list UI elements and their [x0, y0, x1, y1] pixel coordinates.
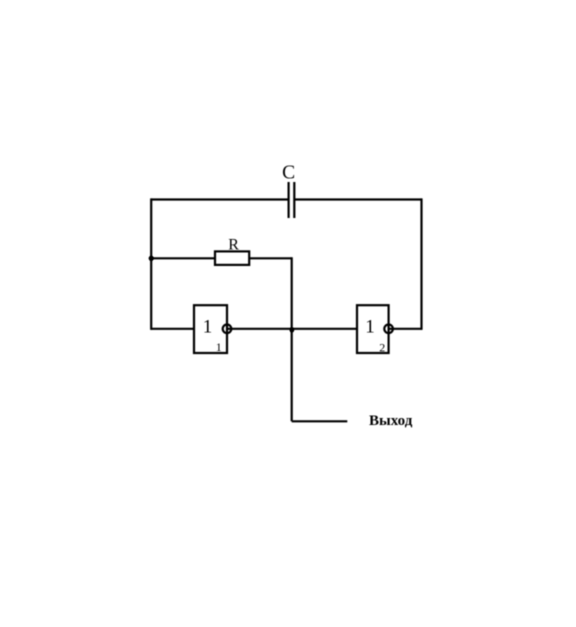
- svg-text:1: 1: [365, 317, 375, 338]
- svg-text:Выход: Выход: [369, 413, 413, 429]
- wire left vertical: [150, 198, 152, 330]
- wire U2 output to right vertical: [389, 328, 422, 330]
- inverter U2 inversion bubble: [384, 325, 393, 334]
- svg-text:2: 2: [379, 341, 385, 355]
- svg-text:C: C: [282, 163, 295, 184]
- wire top-right horizontal: [294, 198, 421, 200]
- node junction dot left: [149, 256, 154, 261]
- wire top-left horizontal: [151, 198, 288, 200]
- wire inverter U1 input: [151, 328, 194, 330]
- inverter U1 inversion bubble: [223, 325, 232, 334]
- inverter U1 body: [194, 305, 227, 353]
- inverter U2 body: [357, 305, 389, 353]
- svg-text:1: 1: [203, 317, 213, 338]
- capacitor C right plate: [293, 182, 295, 218]
- svg-text:1: 1: [216, 340, 222, 354]
- wire output horizontal stub: [292, 420, 348, 422]
- wire U1 output to U2 input: [227, 328, 357, 330]
- wire resistor-branch right segment: [249, 257, 292, 259]
- node junction dot middle: [290, 328, 295, 333]
- wire resistor-branch left segment: [151, 257, 215, 259]
- capacitor C left plate: [288, 182, 290, 218]
- resistor R body: [215, 251, 249, 265]
- wire right vertical: [420, 198, 422, 330]
- svg-text:R: R: [228, 236, 239, 253]
- wire middle vertical (feedback/output node): [291, 257, 293, 421]
